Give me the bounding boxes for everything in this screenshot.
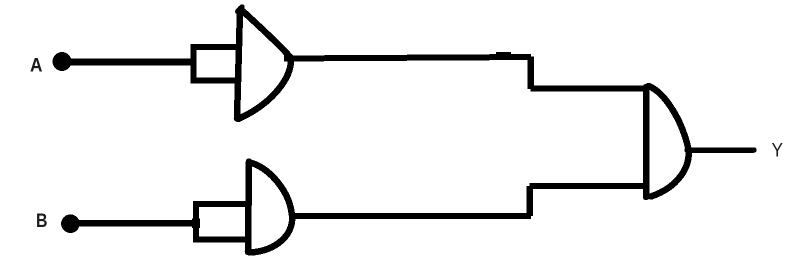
gate U1 (top AND) curved body	[238, 9, 291, 119]
gate U2 input notch box	[196, 204, 247, 240]
node B terminal dot	[61, 214, 80, 233]
svg-text:B: B	[36, 211, 48, 232]
wire B end overlap blob	[192, 218, 200, 228]
wire into U3 lower input	[530, 183, 649, 189]
wire jog up from U2 output	[526, 186, 533, 216]
wire overlap blip	[496, 52, 511, 57]
gate U3 (output AND) curved body	[649, 86, 689, 197]
node A terminal dot	[53, 52, 72, 71]
gate U1 input notch box	[194, 47, 241, 81]
gate U3 (output AND) flat back line	[643, 87, 650, 197]
svg-text:Y: Y	[772, 141, 784, 162]
wire from U2 output east	[290, 213, 531, 219]
wire U3 output to Y	[687, 147, 754, 153]
wire jog down from U1 output	[527, 57, 534, 90]
gate U2 (bottom AND) flat back line	[248, 162, 249, 253]
wire into U3 upper input	[531, 86, 649, 92]
gate U2 (bottom AND) curved body	[250, 163, 293, 253]
wire from U1 output east	[284, 57, 531, 59]
gate U1 (top AND) flat back line	[237, 10, 240, 119]
wire from B to gate U2	[72, 220, 199, 227]
wire from A to gate U1	[64, 59, 196, 66]
gate U1 back-line top overshoot tick	[238, 7, 243, 12]
svg-text:A: A	[30, 56, 43, 77]
